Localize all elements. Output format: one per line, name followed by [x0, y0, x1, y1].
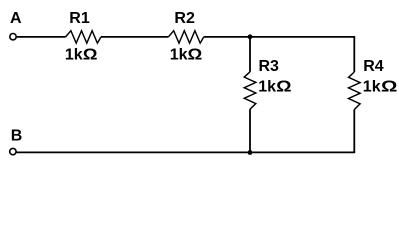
R3 value 1kΩ [258, 77, 291, 95]
svg-text:1k: 1k [363, 79, 381, 96]
R2 value 1kΩ [170, 45, 203, 64]
svg-text:1k: 1k [258, 79, 276, 96]
svg-text:R4: R4 [363, 58, 384, 75]
resistor R1 [66, 31, 101, 43]
svg-text:R2: R2 [174, 10, 195, 27]
svg-text:B: B [11, 128, 23, 145]
R1 value 1kΩ [65, 45, 98, 64]
junction node top [248, 34, 253, 39]
resistor R4 [349, 72, 361, 110]
wire R4 to bottom rail [353, 110, 355, 153]
wire R3 to bottom rail [249, 109, 251, 152]
wire junction down to R3 [249, 37, 251, 72]
svg-text:1k: 1k [65, 47, 83, 64]
wire R2 to corner [204, 36, 354, 38]
wire corner down to R4 [353, 36, 355, 72]
terminal A [10, 34, 16, 40]
svg-text:1k: 1k [170, 47, 188, 64]
svg-text:A: A [10, 10, 22, 27]
resistor R3 [244, 72, 256, 109]
svg-text:Ω: Ω [188, 45, 203, 64]
svg-text:Ω: Ω [381, 77, 397, 95]
svg-text:Ω: Ω [83, 45, 98, 64]
svg-text:Ω: Ω [276, 77, 291, 95]
resistor R2 [168, 31, 203, 43]
svg-text:R1: R1 [69, 10, 90, 27]
junction node bottom [248, 150, 253, 155]
wire A to R1 [16, 36, 65, 38]
R4 value 1kΩ [363, 77, 398, 96]
terminal B [10, 148, 16, 154]
wire R1 to R2 [101, 36, 168, 38]
svg-text:R3: R3 [259, 58, 280, 75]
bottom wire rail B to R4 [16, 151, 355, 153]
